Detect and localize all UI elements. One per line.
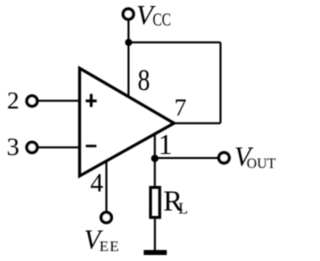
terminal circle pin 2 bbox=[27, 96, 37, 106]
terminal circle Vcc bbox=[123, 9, 133, 19]
terminal circle Vee bbox=[101, 212, 111, 222]
wire pin4 to Vee bbox=[105, 160, 107, 212]
svg-text:7: 7 bbox=[174, 95, 186, 122]
ground bbox=[144, 250, 167, 255]
svg-text:8: 8 bbox=[138, 63, 150, 97]
wire pin3 input bbox=[38, 146, 79, 148]
svg-text:EE: EE bbox=[99, 238, 120, 255]
svg-text:L: L bbox=[178, 201, 188, 218]
svg-text:1: 1 bbox=[158, 130, 172, 161]
junction dot output node bbox=[151, 155, 158, 162]
wire resistor to ground bbox=[154, 219, 156, 251]
wire to Vout bbox=[155, 157, 218, 159]
op-amp inverting input minus sign bbox=[86, 145, 97, 148]
terminal circle Vout bbox=[219, 153, 229, 163]
wire pin1 output down bbox=[154, 133, 156, 187]
terminal circle pin 3 bbox=[27, 142, 37, 152]
wire pin8 to Vcc bbox=[128, 20, 130, 98]
svg-text:4: 4 bbox=[90, 169, 103, 198]
wire top horizontal bbox=[129, 41, 221, 43]
resistor RL bbox=[151, 187, 160, 217]
op-amp non-inverting input plus sign bbox=[86, 94, 97, 107]
wire right vertical bbox=[220, 42, 222, 123]
svg-text:CC: CC bbox=[153, 11, 171, 30]
wire pin7 from apex bbox=[172, 122, 221, 124]
svg-text:3: 3 bbox=[7, 132, 20, 161]
junction dot Vcc node bbox=[125, 39, 132, 46]
svg-text:OUT: OUT bbox=[247, 156, 276, 172]
wire pin2 input bbox=[38, 100, 79, 102]
op-amp U1 triangle bbox=[80, 68, 174, 176]
svg-text:2: 2 bbox=[7, 88, 19, 115]
